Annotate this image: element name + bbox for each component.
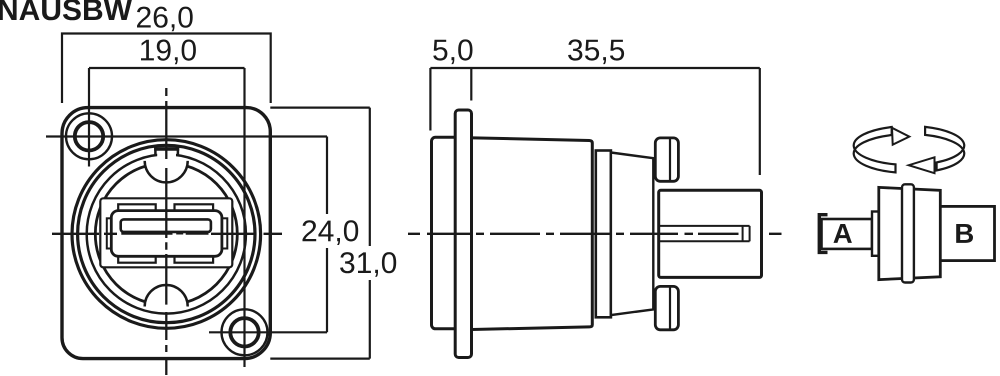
USB-A contact bar dash: [176, 232, 183, 234]
adapter USB-A shell: [822, 219, 873, 249]
dimension 31,0 vertical line upper segment: [369, 108, 371, 246]
bottom notch semicircle: [145, 285, 188, 307]
rotation arrow band left piece: [854, 127, 896, 172]
adapter USB-B plug: [939, 206, 995, 260]
key tab right side: [177, 147, 180, 155]
USB-A bottom contact left: [118, 255, 156, 262]
dimension 26,0 text: [137, 7, 193, 32]
dimension 19,0 text: [141, 40, 196, 65]
top notch semicircle: [145, 161, 188, 183]
dimension 31,0 top arm: [270, 106, 370, 108]
side view tapered section: [611, 153, 653, 316]
USB-A side tab left: [107, 218, 114, 248]
rotation arrowhead bottom (points left): [909, 157, 935, 173]
screw hole top-left crosshair vertical / 19,0 left extension: [88, 68, 90, 167]
mounting circle A (outer body): [72, 140, 261, 329]
USB-A socket outer frame: [100, 198, 232, 267]
adapter USB-A lip: [819, 215, 827, 253]
knurled nut bottom piece: [655, 286, 678, 329]
knurled nut top inner line: [669, 139, 671, 181]
USB-A top contact right: [175, 204, 214, 211]
dimension 35,5 text: [568, 39, 624, 64]
side view flange: [455, 110, 471, 358]
key tab left side: [154, 147, 157, 155]
dimension 31,0 bottom arm: [270, 358, 370, 360]
side view main cylinder: [462, 138, 592, 330]
front view D-plate: [62, 108, 270, 359]
mounting circle B (bezel): [78, 145, 255, 322]
front view: horizontal centerline: [52, 233, 282, 235]
USB-B slot top line: [659, 225, 750, 227]
screw hole bottom-right inner ring: [230, 318, 258, 346]
screw hole bottom-right crosshair vertical / 19,0 right extension: [243, 68, 245, 367]
adapter coupler body: [879, 187, 941, 279]
dimension 24,0 vertical line lower segment: [326, 248, 328, 332]
mounting circle D (socket face): [95, 163, 237, 305]
knurled nut bottom inner line: [669, 288, 671, 330]
side view centerline: [408, 233, 782, 235]
adapter center ridge band: [902, 184, 914, 282]
rotation arrow band right piece: [925, 127, 964, 170]
USB-A side tab right: [220, 218, 228, 248]
key tab top bar: [154, 147, 179, 151]
USB-B slot bottom line: [659, 240, 750, 242]
USB-A top contact left: [118, 204, 156, 211]
adapter neck: [872, 212, 879, 256]
front view: vertical centerline: [165, 88, 167, 375]
adapter letter B: [956, 224, 973, 243]
USB-A contact bar segment 1: [121, 232, 172, 235]
dimension 24,0 text: [303, 220, 359, 245]
USB-B slot tick 2: [749, 226, 751, 241]
dimension extension left (front face): [429, 68, 431, 131]
title NAUSBW: [0, 0, 132, 20]
screw hole bottom-right outer circle: [222, 309, 268, 355]
USB-A tongue: [121, 219, 211, 232]
USB-A contact bar segment 2: [186, 232, 209, 235]
dimension 19,0 line: [89, 67, 245, 69]
dimension extension mid (flange back): [470, 68, 472, 101]
adapter USB-A inner lip: [821, 222, 824, 246]
key tab interior mask: [157, 149, 176, 159]
screw hole top-left inner ring: [75, 122, 103, 150]
dimension extension right (rear face): [759, 68, 761, 175]
side view front bezel: [432, 137, 462, 328]
adapter letter A: [834, 224, 852, 243]
USB-A shell: [111, 211, 222, 257]
USB-A bottom contact right: [175, 255, 214, 262]
screw hole bottom-right crosshair horizontal / 24,0 bottom arm: [209, 331, 327, 333]
dimension 5,0 / 35,5 line: [430, 67, 759, 69]
side view USB-B rear body: [659, 190, 762, 277]
knurled nut top piece: [655, 138, 678, 181]
dimension 24,0 vertical line upper segment: [326, 137, 328, 215]
dimension 31,0 vertical line lower segment: [369, 280, 371, 359]
side view washer section: [596, 151, 611, 318]
mounting circle C (face step): [87, 154, 246, 313]
dimension 31,0 text: [340, 252, 396, 277]
screw hole top-left crosshair horizontal / 24,0 top arm: [46, 135, 327, 137]
dimension 5,0 text: [433, 39, 472, 64]
rotation arrowhead top (points right): [892, 128, 909, 145]
USB-B slot tick 1: [742, 226, 744, 241]
screw hole top-left outer circle: [66, 113, 112, 159]
dimension 26,0 bracket: [62, 34, 271, 104]
